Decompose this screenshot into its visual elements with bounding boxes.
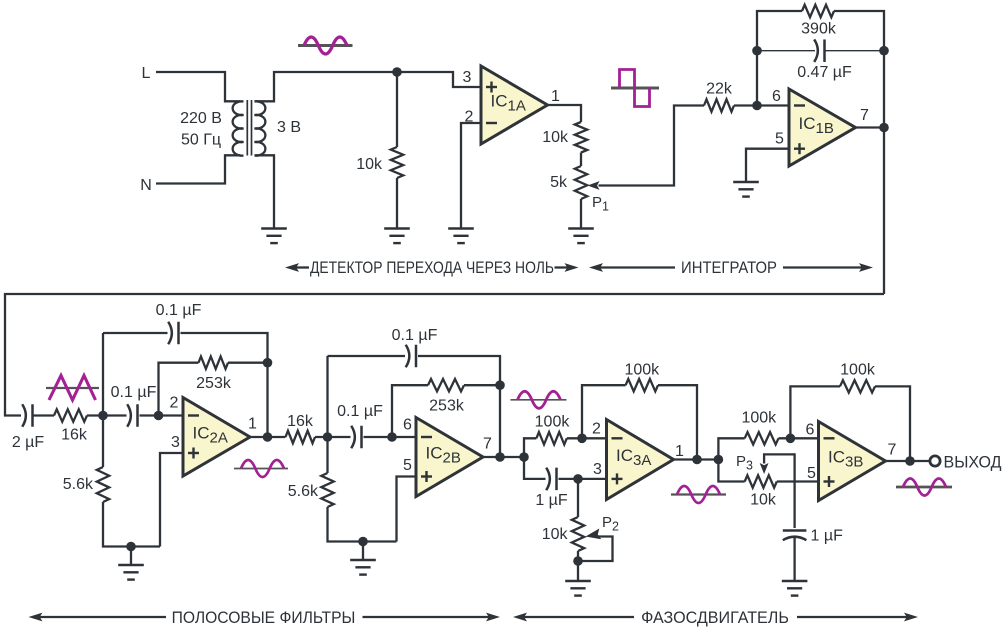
svg-text:5.6k: 5.6k — [288, 483, 319, 500]
svg-text:220 В: 220 В — [180, 110, 222, 127]
svg-text:0.1 µF: 0.1 µF — [337, 403, 383, 420]
svg-text:1: 1 — [675, 443, 684, 460]
svg-text:10k: 10k — [542, 129, 569, 146]
svg-text:3: 3 — [463, 69, 472, 86]
svg-text:10k: 10k — [356, 156, 383, 173]
svg-text:1 µF: 1 µF — [535, 492, 568, 509]
svg-text:2 µF: 2 µF — [12, 434, 45, 451]
svg-text:7: 7 — [860, 107, 869, 124]
svg-text:100k: 100k — [741, 410, 777, 427]
svg-text:7: 7 — [483, 436, 492, 453]
svg-text:253k: 253k — [196, 375, 232, 392]
svg-text:10k: 10k — [542, 526, 569, 543]
svg-text:1: 1 — [248, 416, 257, 433]
svg-text:50 Гц: 50 Гц — [181, 132, 221, 149]
svg-text:6: 6 — [806, 422, 815, 439]
svg-text:0.1 µF: 0.1 µF — [156, 302, 202, 319]
svg-text:5: 5 — [807, 465, 816, 482]
svg-text:0.47 µF: 0.47 µF — [797, 64, 852, 81]
svg-text:16k: 16k — [287, 413, 314, 430]
svg-text:16k: 16k — [61, 427, 88, 444]
svg-text:100k: 100k — [535, 414, 571, 431]
svg-text:6: 6 — [772, 88, 781, 105]
svg-text:10k: 10k — [750, 492, 777, 509]
svg-text:P1: P1 — [592, 194, 609, 214]
svg-text:6: 6 — [403, 417, 412, 434]
svg-text:2: 2 — [592, 421, 601, 438]
svg-text:5: 5 — [403, 457, 412, 474]
svg-text:5k: 5k — [550, 174, 568, 191]
svg-text:ДЕТЕКТОР ПЕРЕХОДА ЧЕРЕЗ НОЛЬ: ДЕТЕКТОР ПЕРЕХОДА ЧЕРЕЗ НОЛЬ — [310, 259, 554, 277]
svg-text:100k: 100k — [840, 362, 876, 379]
svg-text:0.1 µF: 0.1 µF — [392, 327, 438, 344]
svg-text:ИНТЕГРАТОР: ИНТЕГРАТОР — [681, 259, 777, 277]
svg-text:1: 1 — [551, 88, 560, 105]
svg-text:5.6k: 5.6k — [63, 476, 94, 493]
svg-text:2: 2 — [465, 109, 474, 126]
svg-text:5: 5 — [775, 131, 784, 148]
svg-text:0.1 µF: 0.1 µF — [111, 384, 157, 401]
svg-text:ФАЗОСДВИГАТЕЛЬ: ФАЗОСДВИГАТЕЛЬ — [641, 607, 789, 627]
svg-text:1 µF: 1 µF — [811, 528, 844, 545]
svg-text:253k: 253k — [429, 398, 465, 415]
svg-text:22k: 22k — [706, 81, 733, 98]
svg-text:N: N — [140, 177, 152, 194]
svg-text:390k: 390k — [801, 21, 837, 38]
svg-text:3: 3 — [171, 434, 180, 451]
svg-text:L: L — [142, 65, 151, 82]
svg-text:ПОЛОСОВЫЕ ФИЛЬТРЫ: ПОЛОСОВЫЕ ФИЛЬТРЫ — [172, 608, 356, 627]
svg-text:2: 2 — [170, 395, 179, 412]
svg-text:100k: 100k — [624, 362, 660, 379]
svg-text:7: 7 — [888, 442, 897, 459]
svg-text:ВЫХОД: ВЫХОД — [944, 452, 1002, 472]
svg-text:3: 3 — [593, 461, 602, 478]
svg-text:P3: P3 — [736, 453, 753, 473]
svg-text:P2: P2 — [602, 514, 619, 534]
svg-text:3 В: 3 В — [277, 119, 301, 136]
